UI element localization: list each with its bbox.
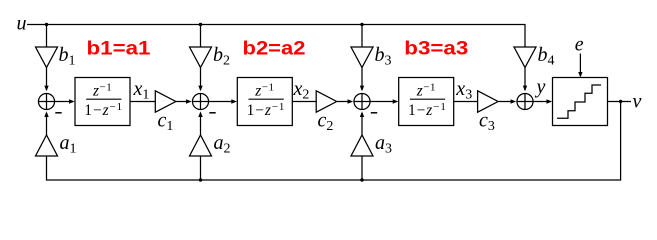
wire c3 output to S4 xyxy=(498,99,516,103)
wire top bus drop to b1 xyxy=(46,25,48,48)
svg-text:a2: a2 xyxy=(214,132,231,157)
wire top bus drop to b3 xyxy=(361,25,363,48)
wire b4 output into summer S4 xyxy=(523,68,527,92)
wire S4 output to quantizer xyxy=(533,99,552,103)
junction dot top bus at b3 xyxy=(360,23,363,26)
wire b2 output into summer S2 xyxy=(198,68,202,92)
integrator block I3 z^-1/(1-z^-1) xyxy=(399,78,454,126)
wire bottom bus riser to a2 xyxy=(200,156,202,180)
junction dot bottom bus at a2 xyxy=(199,178,202,181)
amplifier a3 (triangle) xyxy=(351,135,373,156)
wire block I3 output to c3 xyxy=(454,101,478,103)
wire quantizer output to v xyxy=(608,101,632,103)
wire block I2 output to c2 xyxy=(292,101,316,103)
svg-text:a3: a3 xyxy=(375,132,392,157)
integrator block I2 z^-1/(1-z^-1) xyxy=(237,78,292,126)
summing junction S4 xyxy=(517,93,533,109)
svg-text:x3: x3 xyxy=(455,78,472,103)
svg-text:b2=a2: b2=a2 xyxy=(243,38,306,60)
amplifier b2 (triangle) xyxy=(190,47,212,68)
svg-text:u: u xyxy=(17,13,27,35)
svg-text:c1: c1 xyxy=(158,110,174,135)
integrator block I1 z^-1/(1-z^-1) xyxy=(75,78,130,126)
amplifier b3 (triangle) xyxy=(351,47,373,68)
svg-text:c3: c3 xyxy=(479,110,495,135)
summing junction S2 xyxy=(192,93,208,109)
wire bottom feedback bus xyxy=(47,102,621,181)
wire top bus drop to b2 xyxy=(200,25,202,48)
minus sign at S3 feedback input xyxy=(371,112,377,114)
svg-text:b1=a1: b1=a1 xyxy=(87,38,151,60)
amplifier b1 (triangle) xyxy=(36,47,58,68)
wire b1 output into summer S1 xyxy=(44,68,48,92)
svg-text:b3=a3: b3=a3 xyxy=(404,38,468,60)
wire S3 output to block I3 xyxy=(370,99,398,103)
summing junction S3 xyxy=(354,93,370,109)
svg-text:v: v xyxy=(633,91,642,113)
wire bottom bus riser to a3 xyxy=(361,156,363,180)
wire e into quantizer xyxy=(578,54,582,78)
svg-text:c2: c2 xyxy=(318,110,334,135)
amplifier c3 (triangle) xyxy=(478,91,499,112)
junction dot top bus at b2 xyxy=(199,23,202,26)
svg-text:b4: b4 xyxy=(538,44,555,69)
wire c1 output to S2 xyxy=(176,99,192,103)
svg-text:b2: b2 xyxy=(213,44,230,69)
amplifier c2 (triangle) xyxy=(316,91,337,112)
amplifier a2 (triangle) xyxy=(190,135,212,156)
summing junction S1 xyxy=(38,93,54,109)
wire a3 output into summer S3 xyxy=(360,111,364,135)
amplifier b4 (triangle) xyxy=(514,47,536,68)
svg-text:b3: b3 xyxy=(375,44,392,69)
minus sign at S2 feedback input xyxy=(209,112,215,114)
wire S1 output to block I1 xyxy=(55,99,75,103)
wire a1 output into summer S1 xyxy=(44,111,48,135)
junction dot bottom bus at a3 xyxy=(360,178,363,181)
wire b3 output into summer S3 xyxy=(360,68,364,92)
amplifier a1 (triangle) xyxy=(36,135,58,156)
svg-text:x2: x2 xyxy=(293,78,310,103)
junction dot at v feedback tap xyxy=(619,100,622,103)
quantizer block (staircase) xyxy=(553,78,608,126)
svg-text:e: e xyxy=(575,34,584,56)
wire a2 output into summer S2 xyxy=(198,111,202,135)
wire S2 output to block I2 xyxy=(209,99,237,103)
svg-text:y: y xyxy=(535,76,546,98)
minus sign at S1 feedback input xyxy=(55,112,61,114)
wire top bus from u to b4 drop xyxy=(27,25,525,48)
svg-text:a1: a1 xyxy=(60,132,77,157)
amplifier c1 (triangle) xyxy=(155,91,176,112)
svg-text:b1: b1 xyxy=(59,44,76,69)
wire block I1 output to c1 xyxy=(130,101,155,103)
svg-text:x1: x1 xyxy=(133,78,150,103)
junction dot top bus at b1 xyxy=(45,23,48,26)
wire c2 output to S3 xyxy=(337,99,353,103)
